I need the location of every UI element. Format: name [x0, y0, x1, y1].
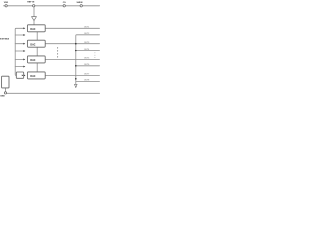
svg-text:DAC: DAC	[30, 28, 35, 31]
svg-text:DAC: DAC	[30, 43, 35, 46]
svg-text:OUT7: OUT7	[84, 74, 90, 76]
svg-text:8 BIT BUS: 8 BIT BUS	[0, 38, 10, 40]
svg-text:REF IN: REF IN	[27, 2, 34, 4]
svg-text:OUT3: OUT3	[84, 42, 90, 44]
svg-text:OUT6: OUT6	[84, 64, 90, 66]
svg-text:OUT4: OUT4	[84, 49, 90, 51]
svg-text:VDD: VDD	[4, 2, 9, 4]
svg-text:DAC: DAC	[30, 75, 35, 78]
svg-text:OUT5: OUT5	[84, 58, 90, 60]
svg-text:SHDN: SHDN	[76, 2, 82, 4]
svg-text:OUT2: OUT2	[84, 33, 90, 35]
svg-text:GND: GND	[0, 95, 5, 97]
svg-text:OUT1: OUT1	[84, 26, 90, 28]
svg-text:DAC: DAC	[30, 59, 35, 62]
svg-text:OUT8: OUT8	[84, 80, 90, 82]
